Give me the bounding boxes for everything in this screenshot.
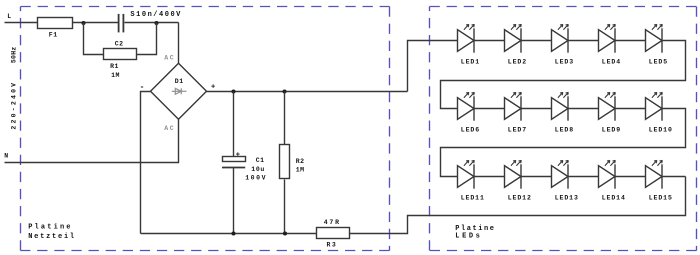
LED6 light emitting diode <box>458 92 475 120</box>
resistor R2 <box>280 145 290 179</box>
svg-text:R2: R2 <box>296 158 305 165</box>
wire plus rail to LED board (LED1) <box>408 41 458 92</box>
wire rail down to R2 <box>284 92 286 145</box>
LED1 light emitting diode <box>458 24 475 52</box>
LED11 light emitting diode <box>458 160 475 188</box>
LED5 light emitting diode <box>646 24 663 52</box>
svg-text:R1: R1 <box>110 63 119 70</box>
svg-text:LED1: LED1 <box>461 59 480 66</box>
bridge rectifier D1 <box>151 63 207 119</box>
svg-text:-: - <box>140 83 145 92</box>
junction R2 top <box>282 89 286 93</box>
svg-text:LED13: LED13 <box>555 195 579 202</box>
wire LED row 3 interconnect segments <box>475 176 646 178</box>
wire N input to bridge AC bottom <box>5 120 179 163</box>
wire R1 right branch <box>137 23 157 55</box>
svg-text:AC: AC <box>164 125 174 132</box>
svg-text:D1: D1 <box>175 78 184 85</box>
svg-text:LED9: LED9 <box>602 127 621 134</box>
wire R1 left branch <box>84 23 104 55</box>
LED15 light emitting diode <box>646 160 663 188</box>
svg-text:C2: C2 <box>115 41 124 48</box>
svg-text:100V: 100V <box>245 175 266 182</box>
LED14 light emitting diode <box>599 160 616 188</box>
LED2 light emitting diode <box>505 24 522 52</box>
wire LED row 2 interconnect segments <box>475 108 646 110</box>
wire R2 down to ground rail <box>284 180 286 234</box>
junction C2/R1 right <box>154 21 158 25</box>
wire C1 down to ground rail <box>233 168 235 234</box>
svg-text:+: + <box>236 152 240 160</box>
svg-text:1M: 1M <box>111 72 120 79</box>
svg-text:LED8: LED8 <box>555 127 574 134</box>
svg-text:R3: R3 <box>327 241 337 248</box>
LED7 light emitting diode <box>505 92 522 120</box>
fuse F1 <box>38 18 73 29</box>
capacitor C1 electrolytic <box>222 152 246 168</box>
svg-text:F1: F1 <box>49 32 58 39</box>
svg-text:C1: C1 <box>256 157 265 164</box>
junction C1 top <box>231 89 235 93</box>
svg-text:1M: 1M <box>296 166 305 173</box>
wire L input to fuse F1 <box>5 22 39 24</box>
LED12 light emitting diode <box>505 160 522 188</box>
svg-text:LED12: LED12 <box>508 195 532 202</box>
svg-text:50Hz: 50Hz <box>11 46 18 63</box>
board outline Platine LEDs (dashed) <box>430 7 697 251</box>
svg-text:LED2: LED2 <box>508 59 527 66</box>
svg-text:LED11: LED11 <box>461 195 485 202</box>
svg-text:LED6: LED6 <box>461 127 480 134</box>
wire C2 right plate to bridge top corner <box>125 22 179 24</box>
svg-text:LED14: LED14 <box>602 195 626 202</box>
junction C1 bottom <box>231 231 235 235</box>
svg-text:AC: AC <box>164 55 174 62</box>
svg-text:LED10: LED10 <box>649 127 673 134</box>
svg-text:S10n/400V: S10n/400V <box>130 11 181 19</box>
wire LED15 cathode to return <box>663 176 686 178</box>
wire bridge plus rail <box>207 91 408 93</box>
svg-text:LED4: LED4 <box>602 59 621 66</box>
svg-text:10u: 10u <box>251 166 265 173</box>
svg-text:LED7: LED7 <box>508 127 527 134</box>
svg-text:220-240V: 220-240V <box>11 81 18 130</box>
svg-text:L: L <box>7 13 12 20</box>
wire LED5 to LED6 (row1 to row2) <box>441 41 686 109</box>
svg-text:LED15: LED15 <box>649 195 673 202</box>
wire LED row 1 interconnect segments <box>475 40 646 42</box>
wire ground rail to R3 <box>141 233 317 235</box>
board outline Platine Netzteil (dashed) <box>21 7 390 251</box>
svg-text:Platine: Platine <box>28 224 72 232</box>
LED13 light emitting diode <box>552 160 569 188</box>
svg-text:Netzteil: Netzteil <box>28 233 75 241</box>
wire R3 to LED board return (from LED15) <box>350 177 686 234</box>
LED3 light emitting diode <box>552 24 569 52</box>
svg-text:LEDs: LEDs <box>455 232 481 240</box>
wire down to bridge AC top <box>178 23 180 64</box>
junction F1 output / R1 branch <box>81 21 85 25</box>
svg-text:47R: 47R <box>324 219 340 226</box>
wire bridge minus terminal to ground rail <box>141 92 151 234</box>
capacitor C2 plates <box>119 14 124 33</box>
LED10 light emitting diode <box>646 92 663 120</box>
svg-text:+: + <box>211 84 216 92</box>
wire rail down to C1 <box>233 92 235 157</box>
svg-text:LED3: LED3 <box>555 59 574 66</box>
LED4 light emitting diode <box>599 24 616 52</box>
wire F1 to C2 left plate <box>73 22 119 24</box>
junction R2 bottom <box>283 231 287 235</box>
svg-text:LED5: LED5 <box>649 59 668 66</box>
svg-text:N: N <box>4 152 9 159</box>
resistor R3 <box>317 228 350 239</box>
LED8 light emitting diode <box>552 92 569 120</box>
LED9 light emitting diode <box>599 92 616 120</box>
resistor R1 <box>104 49 137 60</box>
wire LED10 to LED11 (row2 to row3) <box>441 109 686 177</box>
